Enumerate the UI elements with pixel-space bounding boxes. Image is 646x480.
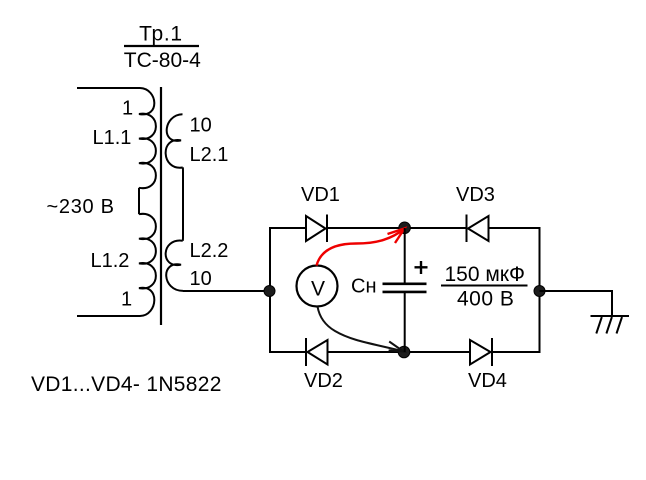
svg-text:VD1...VD4- 1N5822: VD1...VD4- 1N5822 <box>31 373 222 396</box>
diode VD2 <box>306 338 328 366</box>
wire primary top lead <box>77 87 140 89</box>
wire bottom rail left segment <box>269 351 306 353</box>
diode VD1 <box>306 215 327 243</box>
svg-text:L2.2: L2.2 <box>190 240 229 262</box>
wire voltmeter black probe to bottom node <box>318 307 403 352</box>
svg-text:VD4: VD4 <box>468 370 507 392</box>
wire bridge right vertical <box>539 228 541 352</box>
capacitor polarity plus sign <box>415 266 428 268</box>
black probe arrowhead <box>389 342 404 352</box>
svg-text:L1.2: L1.2 <box>91 250 130 272</box>
transformer label fraction line <box>124 45 199 47</box>
wire right node to ground <box>540 291 613 316</box>
svg-text:Тр.1: Тр.1 <box>139 22 183 45</box>
svg-text:400 В: 400 В <box>457 287 514 310</box>
transformer core <box>160 87 162 325</box>
svg-text:1: 1 <box>121 289 132 311</box>
inductor L1.2 primary winding lower half <box>139 214 156 316</box>
inductor L2.1 secondary winding upper <box>166 114 183 168</box>
wire top rail right segment <box>488 227 541 229</box>
wire bottom rail right segment <box>492 351 541 353</box>
wire primary bottom lead <box>77 315 140 317</box>
svg-text:Сн: Сн <box>351 275 377 297</box>
svg-text:10: 10 <box>190 115 212 137</box>
svg-text:~230 В: ~230 В <box>47 196 115 218</box>
svg-text:VD2: VD2 <box>304 370 343 392</box>
svg-text:VD3: VD3 <box>456 184 495 206</box>
diode VD3 <box>467 215 489 243</box>
node junction bottom center <box>398 346 410 358</box>
capacitor value fraction line <box>441 285 528 287</box>
svg-text:ТС-80-4: ТС-80-4 <box>124 49 201 72</box>
inductor L2.2 secondary winding lower <box>166 240 183 290</box>
wire voltmeter red probe to top node <box>317 229 405 266</box>
svg-text:V: V <box>311 277 325 300</box>
svg-text:1: 1 <box>122 98 133 120</box>
wire secondary connector between L2.1 and L2.2 <box>182 168 184 241</box>
wire secondary output lead to bridge <box>183 290 270 292</box>
wire top node to capacitor <box>404 228 406 283</box>
wire bridge left vertical <box>269 228 271 352</box>
wire top rail left segment <box>269 227 306 229</box>
ground symbol <box>591 316 630 334</box>
capacitor Cn <box>383 282 427 285</box>
voltmeter V <box>297 266 338 307</box>
wire bottom rail middle segment <box>328 351 471 353</box>
svg-text:10: 10 <box>190 268 212 290</box>
svg-text:150 мкФ: 150 мкФ <box>445 263 525 286</box>
red probe arrowhead <box>388 229 405 244</box>
wire capacitor to bottom node <box>404 293 406 352</box>
svg-text:VD1: VD1 <box>301 184 340 206</box>
svg-text:L2.1: L2.1 <box>190 144 229 166</box>
inductor L1.1 primary winding upper half <box>139 88 156 188</box>
node junction left AC input <box>264 286 275 297</box>
node junction right AC input <box>534 286 545 297</box>
svg-text:L1.1: L1.1 <box>93 127 132 149</box>
node junction top center <box>399 222 411 234</box>
diode VD4 <box>470 338 492 366</box>
wire primary middle straight segment <box>138 188 140 214</box>
wire top rail middle segment <box>327 227 467 229</box>
